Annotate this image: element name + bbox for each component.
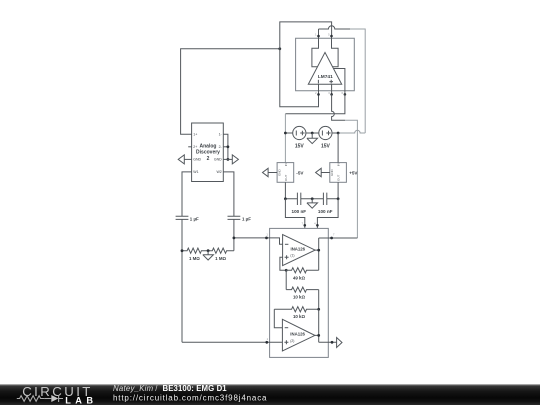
capacitor C3 1uF — [176, 216, 199, 221]
svg-text:Natey_Kim: Natey_Kim — [113, 384, 154, 393]
junction dot chain — [317, 308, 320, 311]
svg-text:LM741: LM741 — [318, 74, 333, 80]
wire +5V bottom pin — [337, 182, 339, 199]
svg-text:Analog: Analog — [200, 143, 217, 149]
svg-text:(2): (2) — [290, 339, 294, 343]
svg-text:OUT: OUT — [284, 175, 288, 182]
svg-text:1 MΩ: 1 MΩ — [215, 256, 226, 261]
svg-text:(1): (1) — [290, 254, 294, 258]
wire right rail down to 15V rail with hop — [338, 130, 365, 133]
junction dot branch — [233, 237, 236, 240]
footer url line — [113, 393, 267, 402]
junction dots INA1 output — [317, 237, 333, 252]
junction dots on 1M row — [181, 249, 210, 252]
junction dots right of AD — [227, 145, 230, 160]
junction dot INA2 input — [265, 341, 268, 344]
svg-text:1 µF: 1 µF — [242, 216, 251, 221]
svg-text:INA126: INA126 — [291, 246, 306, 251]
wire left column below cap — [181, 219, 183, 342]
svg-text:+5V: +5V — [349, 171, 358, 176]
wire AD W1 down left column — [182, 172, 192, 216]
wire INA1 minus input — [267, 238, 283, 244]
svg-text:GND: GND — [193, 158, 201, 162]
wire -5V left pin to port arrow — [268, 172, 277, 174]
port arrow output — [337, 338, 342, 348]
svg-text:GND: GND — [330, 169, 334, 177]
CircuitLab logo text — [22, 384, 97, 405]
port arrow into -5V — [263, 168, 269, 176]
wire to INA2 minus input — [274, 309, 282, 327]
wire AD 2- stub — [223, 146, 228, 148]
wire LM741 output pin6 down to left rail drop — [285, 94, 345, 162]
wire INA1 output — [315, 238, 357, 270]
svg-text:1 MΩ: 1 MΩ — [189, 256, 200, 261]
svg-text:Discovery: Discovery — [196, 150, 220, 156]
wire feedback loop around LM741 (pin2 to top) — [280, 22, 332, 107]
resistor R1 1MOhm — [182, 248, 208, 261]
junction dots on 100nF rail — [284, 197, 340, 200]
wire step right down to INA supply pin — [317, 199, 338, 229]
svg-text:W1: W1 — [193, 170, 198, 174]
pin numbers LM741 — [315, 32, 343, 95]
wire step left down to INA supply pin — [285, 199, 304, 229]
ground under 100nF caps — [307, 199, 318, 208]
wire -5V bottom pin down — [284, 182, 286, 199]
supply pin dots — [304, 224, 319, 227]
capacitor C2 100nF — [318, 193, 333, 214]
port arrow AD right GND — [232, 155, 238, 164]
voltage source V1 15V — [293, 126, 306, 149]
wire feedback down — [285, 270, 287, 289]
wire INA1 plus input to feedback — [280, 257, 286, 270]
wire INA2 plus input from left column — [182, 341, 282, 343]
resistor R3 49kOhm — [286, 268, 319, 281]
junction dots INA2 output — [317, 334, 333, 344]
100nF rail wires — [285, 198, 338, 200]
wire AD GND left to port arrow — [184, 158, 191, 160]
svg-text:LAB: LAB — [65, 396, 97, 405]
pin dots of LM741 — [317, 35, 346, 96]
junction dots on 15V rail — [284, 132, 340, 135]
pin number INA2 input — [267, 337, 269, 341]
resistor R5 10kOhm — [274, 307, 318, 320]
svg-text:100 nF: 100 nF — [318, 209, 333, 214]
svg-text:1+: 1+ — [193, 133, 197, 137]
op-amp U1 LM741 — [308, 36, 345, 94]
junction dot feedback — [285, 269, 288, 272]
wire stub AD 2+ — [188, 146, 191, 148]
wire pin1-null to right rail with hop over vertical — [319, 26, 366, 133]
in-amp INA126 (1) — [283, 235, 316, 266]
svg-text:OUT: OUT — [337, 175, 341, 182]
ground between sources — [307, 133, 318, 144]
pin number INA1 output — [333, 233, 335, 237]
svg-text:GND: GND — [277, 169, 281, 177]
regulator box +5V — [330, 163, 359, 183]
supply pin numbers — [302, 222, 317, 226]
in-amp INA126 (2) — [282, 319, 315, 351]
CircuitLab logo squiggle — [17, 395, 63, 402]
port arrow into +5V — [316, 168, 322, 176]
wire right column below cap — [233, 219, 235, 250]
svg-text:-5V: -5V — [296, 171, 304, 176]
resistor R4 10kOhm — [286, 287, 319, 300]
wire AD W2 down right column — [223, 172, 234, 216]
15V supply rail — [285, 132, 338, 134]
svg-text:15V: 15V — [295, 143, 305, 149]
port arrow AD left GND — [178, 155, 184, 164]
svg-text:2: 2 — [207, 156, 210, 162]
wire rectangle loop around LM741 — [296, 38, 355, 90]
svg-text:49 kΩ: 49 kΩ — [293, 275, 306, 280]
svg-text:IN: IN — [284, 163, 288, 166]
footer credit line — [113, 384, 227, 393]
wire +5V left pin to port arrow — [321, 172, 330, 174]
wire +5V top pin — [337, 133, 339, 163]
svg-text:http://circuitlab.com/cmc3f98j: http://circuitlab.com/cmc3f98j4naca — [113, 393, 267, 402]
svg-text:10 kΩ: 10 kΩ — [293, 295, 306, 300]
svg-text:10 kΩ: 10 kΩ — [293, 314, 306, 319]
wire right column branch to INA1 input — [234, 237, 267, 239]
capacitor C4 1uF — [228, 216, 252, 221]
junction dot node at loop left — [278, 47, 281, 50]
footer bar — [0, 384, 540, 405]
svg-text:GND: GND — [214, 158, 222, 162]
wire INA2 output — [315, 309, 337, 342]
capacitor C1 100nF — [292, 193, 307, 214]
svg-text:1 µF: 1 µF — [190, 216, 199, 221]
svg-text:100 nF: 100 nF — [292, 209, 307, 214]
wire AD 1- to 2- join — [223, 134, 228, 159]
pin number INA1 input — [266, 233, 268, 237]
regulator box -5V — [277, 163, 304, 183]
wire AD GND right to port arrow — [223, 158, 232, 160]
resistor R2 1MOhm — [208, 248, 234, 261]
svg-text:W2: W2 — [216, 170, 221, 174]
svg-text:IN: IN — [337, 163, 341, 166]
wire from AD 1+ up and over to LM741 loop — [181, 49, 280, 135]
svg-text:15V: 15V — [321, 143, 331, 149]
svg-text:INA126: INA126 — [290, 332, 305, 337]
INA stage outline box — [270, 228, 329, 357]
ground under 1M resistors — [203, 251, 214, 260]
svg-text:BE3100: EMG D1: BE3100: EMG D1 — [163, 384, 228, 393]
junction dot INA1 input — [265, 237, 268, 240]
voltage source V2 15V — [319, 126, 332, 149]
wire right chain down — [318, 290, 320, 310]
Analog Discovery 2 box — [192, 123, 224, 182]
wire pin3 down with hop then right and down to INA1 output line — [332, 94, 358, 238]
svg-text:2+: 2+ — [193, 145, 197, 149]
